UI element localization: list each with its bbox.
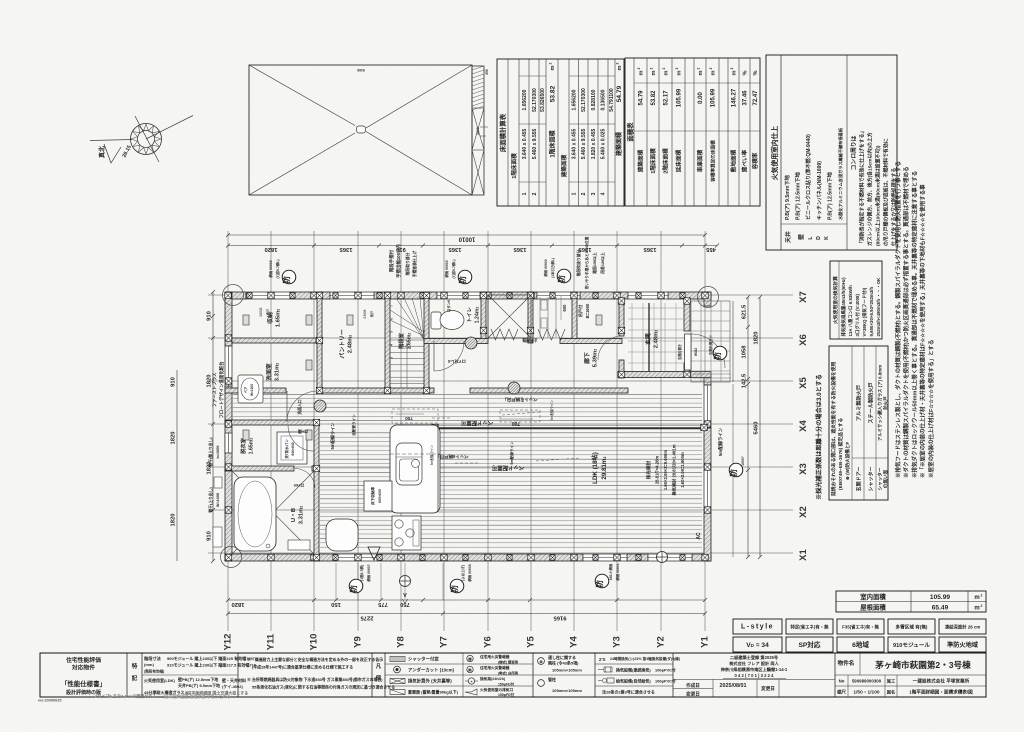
- service door step outside left wall: [213, 527, 222, 547]
- area summary table menseki-hyo: [625, 58, 760, 206]
- kitchen ventilation calc table: [830, 261, 882, 339]
- genkan entrance door leaf: [677, 334, 698, 370]
- entrance porch tiles: [691, 301, 733, 382]
- fire-protection circle symbols: [268, 258, 745, 603]
- grid corner circles: [221, 285, 719, 568]
- overhead cabinet dashed outlines: [392, 409, 540, 423]
- fire-use room finish table: [766, 55, 898, 250]
- daylight note and fire-door table: [815, 374, 823, 500]
- grid axis labels X7-X1: [798, 291, 809, 561]
- interior walls: [225, 292, 711, 561]
- floor area calculation table: [497, 59, 624, 206]
- vanity unit in senmenshitsu: [238, 375, 263, 403]
- kitchen counter and sink: [390, 425, 440, 513]
- dining counter: [326, 519, 358, 551]
- left dimension lines: [171, 290, 216, 563]
- bottom title block band: [40, 653, 986, 698]
- genkan step edge agarikamachi: [648, 303, 650, 371]
- bottom dimension lines: [226, 563, 707, 621]
- misc plan annotations: [208, 236, 724, 539]
- roof plan rectangle: [249, 65, 489, 195]
- open stair void with cross bracing: [488, 295, 565, 343]
- room labels: [239, 307, 660, 525]
- grid lines: [208, 231, 793, 631]
- floor storage hatch: [364, 481, 392, 511]
- L-style option boxes: [733, 619, 986, 652]
- top dimension lines: [226, 233, 719, 252]
- gas stove: [392, 516, 421, 550]
- genkan tile floor: [628, 303, 683, 371]
- hatched post circle at genkan entry: [314, 400, 326, 412]
- datum triangle marker on south wall: [368, 547, 380, 560]
- washing machine pan: [277, 432, 307, 464]
- daylight calc text block: [645, 444, 685, 495]
- notes right of finish table: [894, 161, 935, 478]
- staircase kaidanshitsu treads: [390, 298, 425, 388]
- north arrow compass: [90, 116, 193, 164]
- interior area table: [836, 591, 986, 612]
- window symbols on exterior walls: [225, 292, 711, 561]
- posts: [225, 292, 711, 560]
- hatched pipe space circles: [465, 337, 520, 394]
- toilet fixture: [431, 311, 464, 330]
- grid axis labels Y12-Y1: [223, 633, 711, 650]
- bath unit UB with tub: [232, 471, 314, 554]
- exterior walls: [225, 292, 711, 561]
- version note: [38, 693, 230, 703]
- wall shutter boxes and tiny window labels: [243, 307, 602, 465]
- kitchen step edge: [437, 425, 439, 512]
- right dimension lines: [733, 295, 762, 559]
- door arcs: [287, 334, 725, 488]
- LDK wood flooring lines: [233, 394, 702, 547]
